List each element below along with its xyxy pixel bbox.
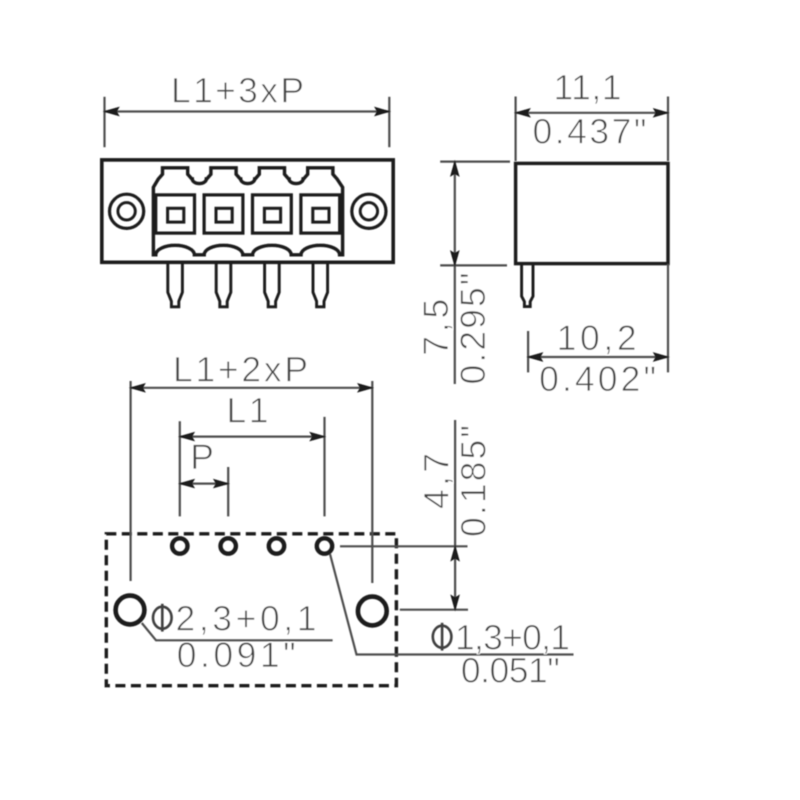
contact pin square 1	[168, 208, 184, 222]
dimension L1+2xP extension line left	[130, 381, 132, 581]
dimension 4,7 vertical line	[454, 420, 456, 610]
dimension 10,2 extension line left	[527, 331, 529, 372]
contact pin square 4	[313, 208, 329, 222]
svg-text:7,5: 7,5	[416, 299, 456, 356]
dimension L1+2xP extension line right	[371, 381, 373, 583]
dimension L1 arrow right	[310, 433, 324, 441]
dimension 7,5 arrow down	[451, 251, 459, 265]
svg-text:L1+2xP: L1+2xP	[173, 349, 308, 389]
svg-text:P: P	[190, 437, 214, 477]
dimension 11,1 arrow left	[516, 109, 530, 117]
dimension 10,2 arrow left	[528, 353, 542, 361]
connector body profile with 4 castellated tabs and wavy bottom	[153, 168, 342, 255]
svg-text:4,7: 4,7	[417, 453, 457, 509]
pin drill hole 1	[172, 538, 187, 553]
pin drill hole 2	[221, 538, 236, 553]
dimension P extension line right	[227, 467, 229, 516]
svg-text:2,3+0,1: 2,3+0,1	[176, 599, 317, 639]
svg-text:11,1: 11,1	[554, 67, 622, 107]
svg-text:0.402": 0.402"	[539, 359, 656, 399]
contact opening 3	[253, 195, 292, 233]
contact opening 4	[301, 195, 340, 233]
diameter symbol for 2,3	[153, 607, 172, 629]
mounting hole right (front view) outer ring	[352, 194, 386, 228]
dimension L1+3xP line	[105, 110, 390, 112]
solder pin 4 (front view)	[313, 264, 328, 307]
dimension 10,2 extension line right (housing edge extended)	[667, 264, 669, 372]
dimension P arrow left	[180, 480, 194, 488]
side housing outline	[516, 163, 668, 263]
svg-text:L1+3xP: L1+3xP	[171, 70, 304, 110]
mounting hole left (front view) outer ring	[110, 194, 144, 228]
svg-text:0.437": 0.437"	[533, 112, 647, 152]
solder pin 2 (front view)	[216, 264, 231, 307]
contact pin square 2	[216, 208, 232, 222]
dimension L1 extension line left	[179, 421, 181, 516]
dimension L1+2xP arrow right	[358, 384, 372, 392]
svg-text:L1: L1	[227, 390, 269, 430]
mounting drill hole right	[358, 597, 387, 626]
extension line from mounting hole right	[400, 609, 468, 611]
mounting hole right (front view) inner ring	[360, 203, 377, 220]
svg-text:0.295": 0.295"	[453, 273, 493, 385]
svg-text:0.051": 0.051"	[461, 651, 560, 691]
leader line for mounting hole diameter	[142, 623, 333, 640]
diameter symbol for 1,3	[433, 626, 452, 648]
dimension 10,2 arrow right	[654, 353, 668, 361]
dimension L1+3xP arrow right	[375, 108, 389, 116]
dimension 11,1 line	[516, 112, 668, 114]
dimension 7,5 top extension line	[440, 161, 510, 163]
solder pin 3 (front view)	[265, 264, 280, 307]
dimension L1 line	[180, 436, 325, 438]
dimension 4,7 arrow up	[451, 546, 459, 560]
dimension 11,1 extension line left	[514, 97, 516, 162]
solder pin (side view)	[522, 264, 533, 307]
dimension 7,5 bottom extension line	[440, 264, 507, 266]
dimension P line	[180, 483, 228, 485]
contact opening 1	[156, 195, 195, 233]
mounting hole left (front view) inner ring	[118, 203, 135, 220]
dimension L1 arrow left	[180, 433, 194, 441]
dimension 11,1 arrow right	[654, 109, 668, 117]
svg-text:10,2: 10,2	[557, 318, 637, 358]
dimension P arrow right	[214, 480, 228, 488]
dimension L1+3xP extension line left	[103, 97, 105, 147]
dimension 10,2 line	[528, 356, 668, 358]
contact opening 2	[204, 195, 243, 233]
dimension L1 extension line right	[323, 417, 325, 517]
svg-text:0.091": 0.091"	[177, 635, 296, 675]
dimension 7,5 vertical line	[454, 162, 456, 384]
svg-text:0.185": 0.185"	[454, 425, 494, 537]
dimension L1+2xP arrow left	[131, 384, 145, 392]
extension line from pin hole 4 to the right	[340, 545, 468, 547]
dimension L1+3xP arrow left	[105, 108, 119, 116]
dimension L1+3xP extension line right	[388, 97, 390, 147]
front housing outline	[102, 160, 393, 262]
pin drill hole 3	[269, 538, 284, 553]
dimension L1+2xP line	[131, 387, 373, 389]
contact pin square 3	[264, 208, 280, 222]
mounting drill hole left	[116, 596, 145, 625]
dimension 4,7 arrow down	[451, 596, 459, 610]
solder pin 1 (front view)	[168, 264, 183, 307]
pin drill hole 4	[317, 538, 332, 553]
leader line for pin hole diameter	[330, 554, 574, 655]
footprint outline (dashed)	[106, 534, 396, 686]
dimension 7,5 arrow up	[451, 162, 459, 176]
dimension 11,1 extension line right	[667, 97, 669, 162]
